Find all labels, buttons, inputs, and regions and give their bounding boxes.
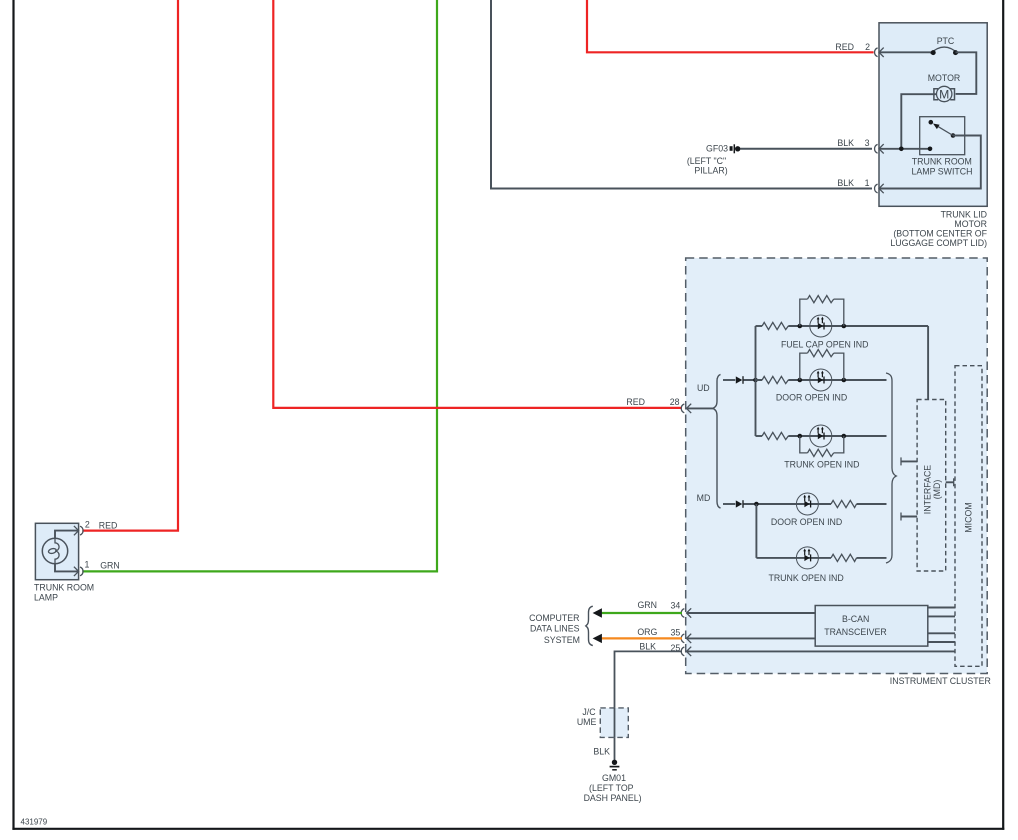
wire diode to MD junction: [744, 503, 832, 505]
wire MD rail to LED (trunk MD): [756, 557, 831, 559]
svg-text:B-CAN: B-CAN: [842, 614, 869, 624]
svg-text:(MD): (MD): [932, 480, 942, 500]
svg-text:GM01: GM01: [602, 773, 626, 783]
svg-text:431979: 431979: [21, 817, 48, 826]
wire UD junction to resistor: [756, 379, 763, 381]
MD vertical rail: [755, 504, 757, 558]
wire UD rail to resistor: [756, 325, 763, 327]
node door UD left: [798, 378, 803, 383]
svg-text:28: 28: [670, 397, 680, 407]
label COMPUTER DATA LINES SYSTEM: [529, 613, 580, 645]
UD vertical rail: [755, 326, 757, 436]
bulb L1: [42, 538, 67, 564]
svg-text:RED: RED: [835, 42, 854, 52]
svg-text:TRUNK ROOM: TRUNK ROOM: [912, 156, 972, 166]
switch contact right: [951, 133, 956, 138]
trunk lid motor box: [879, 23, 987, 207]
wire fuel cap to interface: [927, 326, 929, 400]
lamp internal wire bottom: [55, 564, 78, 572]
motor M1: [934, 86, 955, 101]
svg-text:GF03: GF03: [706, 144, 728, 154]
node trunk UD left: [798, 434, 803, 439]
svg-text:LAMP SWITCH: LAMP SWITCH: [912, 167, 973, 177]
svg-text:TRUNK LID: TRUNK LID: [941, 210, 987, 220]
node trunk UD right: [842, 434, 847, 439]
wire motor left to switch line: [901, 94, 936, 149]
B-CAN transceiver box: [815, 606, 928, 647]
svg-text:35: 35: [671, 627, 681, 637]
pin 3 of trunk lid motor: [875, 144, 884, 153]
svg-text:MD: MD: [697, 493, 711, 503]
svg-text:BLK: BLK: [837, 138, 854, 148]
resistor (trunk UD): [762, 432, 788, 439]
wire black GF03 to trunk lid motor pin 3: [740, 148, 872, 150]
wire pin25 to MICOM: [687, 650, 956, 652]
svg-text:INTERFACE: INTERFACE: [922, 465, 932, 514]
resistor (fuel cap): [762, 322, 788, 329]
ground GM01: [610, 760, 620, 770]
brace computer data lines: [586, 606, 593, 645]
B-CAN to MICOM wire 2: [928, 615, 955, 617]
wire switch right to pin1: [879, 136, 981, 189]
svg-text:MOTOR: MOTOR: [954, 219, 987, 229]
svg-text:ORG: ORG: [637, 627, 657, 637]
diode D1 (UD): [736, 376, 743, 384]
svg-text:DOOR OPEN IND: DOOR OPEN IND: [776, 393, 847, 403]
B-CAN to MICOM wire 4: [928, 641, 955, 643]
svg-text:LAMP: LAMP: [34, 593, 58, 603]
frame right border: [1002, 0, 1004, 830]
wire green vertical to trunk room lamp pin 1: [82, 0, 437, 571]
brace UD/MD split: [713, 374, 721, 508]
junction node UD: [753, 378, 758, 383]
wire PTC to motor right: [956, 52, 977, 94]
wire black pin25 to ground: [615, 651, 683, 760]
svg-text:1: 1: [84, 560, 89, 570]
svg-text:DOOR OPEN IND: DOOR OPEN IND: [771, 517, 842, 527]
wire green to computer data lines: [602, 612, 683, 614]
wire red vertical to trunk room lamp pin 2: [82, 0, 178, 531]
pin 34 of instrument cluster: [681, 608, 691, 617]
interface input stub lower: [901, 513, 917, 521]
wire resistor to LED: [788, 379, 886, 381]
svg-text:RED: RED: [99, 520, 118, 530]
wire resistor to LED: [788, 325, 928, 327]
svg-text:2: 2: [865, 42, 870, 52]
interface (MD) dashed box: [917, 400, 946, 572]
wire resistor to brace (MD door): [857, 503, 887, 505]
svg-text:MOTOR: MOTOR: [928, 73, 961, 83]
lamp internal wire top: [55, 531, 78, 539]
svg-text:FUEL CAP OPEN IND: FUEL CAP OPEN IND: [781, 340, 869, 350]
pin 35 of instrument cluster: [681, 634, 691, 643]
wire red vertical to trunk lid motor pin 2: [587, 0, 874, 52]
svg-text:3: 3: [865, 138, 870, 148]
svg-text:DATA LINES: DATA LINES: [530, 624, 580, 634]
interface input stub upper: [901, 457, 917, 465]
LED door open ind (MD): [796, 493, 818, 515]
svg-text:UD: UD: [697, 383, 710, 393]
node UD rail: [723, 379, 735, 381]
label B-CAN TRANSCEIVER: [824, 614, 887, 637]
diode D2 (MD): [736, 500, 743, 508]
ground labels: [584, 773, 642, 803]
pin 1 of trunk room lamp: [74, 567, 83, 576]
svg-text:PTC: PTC: [937, 36, 955, 46]
wire resistor to brace (MD trunk): [857, 557, 887, 559]
wire UD rail to resistor: [756, 435, 763, 437]
parallel resistor loop (trunk UD, below): [800, 436, 844, 457]
svg-text:(LEFT TOP: (LEFT TOP: [589, 783, 634, 793]
svg-text:2: 2: [85, 520, 90, 530]
resistor (door UD): [762, 376, 788, 383]
wire resistor to LED: [788, 435, 886, 437]
switch contact bottom-left: [928, 147, 933, 152]
svg-text:GRN: GRN: [637, 600, 657, 610]
svg-text:GRN: GRN: [100, 560, 120, 570]
J/C UME dashed box: [600, 708, 628, 738]
arrow orange data line: [593, 634, 602, 643]
wire through J/C: [614, 708, 616, 738]
frame bottom border: [12, 828, 1004, 830]
grouping brace right: [886, 373, 896, 563]
pin 2 of trunk lid motor: [875, 48, 884, 57]
arrow green data line: [593, 608, 602, 617]
svg-text:LUGGAGE COMPT LID): LUGGAGE COMPT LID): [890, 238, 987, 248]
wire pin28 to brace: [687, 407, 714, 409]
wire pin3 to switch: [879, 148, 930, 150]
svg-text:COMPUTER: COMPUTER: [529, 613, 579, 623]
svg-text:TRANSCEIVER: TRANSCEIVER: [824, 627, 887, 637]
svg-text:TRUNK OPEN IND: TRUNK OPEN IND: [784, 460, 859, 470]
PTC right node: [953, 50, 958, 55]
instrument cluster dashed box: [686, 258, 988, 674]
svg-text:RED: RED: [626, 397, 645, 407]
svg-text:BLK: BLK: [837, 178, 854, 188]
svg-text:34: 34: [671, 601, 681, 611]
LED trunk open ind (UD): [810, 425, 832, 447]
wire pin34 to B-CAN: [687, 612, 816, 614]
wire pin2 to PTC: [879, 51, 933, 53]
switch contact top-left: [929, 120, 934, 125]
resistor (MD door): [831, 500, 857, 507]
resistor (MD trunk): [831, 554, 857, 561]
svg-text:MICOM: MICOM: [964, 502, 974, 532]
pin 1 of trunk lid motor: [875, 184, 884, 193]
node fuel cap right: [842, 324, 847, 329]
svg-text:BLK: BLK: [593, 747, 610, 757]
pin 25 of instrument cluster: [681, 647, 691, 656]
trunk room lamp switch S1 box: [920, 117, 965, 155]
svg-text:J/C: J/C: [582, 707, 596, 717]
trunk room lamp box: [35, 523, 78, 579]
interface to micom stub: [946, 478, 954, 486]
svg-text:INSTRUMENT CLUSTER: INSTRUMENT CLUSTER: [890, 676, 991, 686]
svg-text:1: 1: [865, 178, 870, 188]
LED fuel cap open ind: [810, 315, 832, 337]
wire pin35 to B-CAN: [687, 637, 816, 639]
connector GF03 symbol: [730, 144, 741, 153]
label INTERFACE (MD): [922, 465, 942, 514]
PTC thermistor arc: [931, 47, 959, 53]
node door UD right: [842, 378, 847, 383]
svg-text:DASH PANEL): DASH PANEL): [584, 793, 642, 803]
B-CAN to MICOM wire 1: [928, 607, 955, 609]
frame left border: [12, 0, 14, 830]
node fuel cap left: [798, 324, 803, 329]
trunk lid motor caption: [890, 210, 987, 249]
wire black vertical to trunk lid motor pin 1: [491, 0, 872, 189]
trunk room lamp caption: [34, 582, 94, 602]
svg-text:BLK: BLK: [639, 642, 656, 652]
svg-text:M: M: [939, 87, 949, 101]
parallel resistor loop (fuel cap): [800, 296, 844, 327]
LED trunk open ind (MD): [796, 547, 818, 569]
svg-text:PILLAR): PILLAR): [694, 166, 727, 176]
switch blade with arrow: [933, 124, 953, 136]
junction node pin3 wire: [899, 147, 904, 152]
svg-text:UME: UME: [577, 717, 597, 727]
wire diode to UD junction: [744, 379, 763, 381]
B-CAN to MICOM wire 3: [928, 632, 955, 634]
pin 28 of instrument cluster: [681, 404, 691, 413]
svg-text:TRUNK ROOM: TRUNK ROOM: [34, 582, 94, 592]
LED door open ind (UD): [810, 369, 832, 391]
pin 2 of trunk room lamp: [74, 526, 83, 535]
svg-text:TRUNK OPEN IND: TRUNK OPEN IND: [768, 573, 843, 583]
label J/C UME: [577, 707, 597, 727]
MICOM dashed box: [955, 366, 982, 667]
MD rail: [723, 503, 735, 505]
wire orange to computer data lines: [602, 637, 683, 639]
wire red vertical to instrument cluster pin 28: [273, 0, 682, 408]
svg-text:(BOTTOM CENTER OF: (BOTTOM CENTER OF: [893, 229, 987, 239]
PTC left node: [931, 50, 936, 55]
svg-text:SYSTEM: SYSTEM: [544, 635, 580, 645]
parallel resistor loop (door UD): [800, 350, 844, 381]
junction node MD: [754, 502, 759, 507]
